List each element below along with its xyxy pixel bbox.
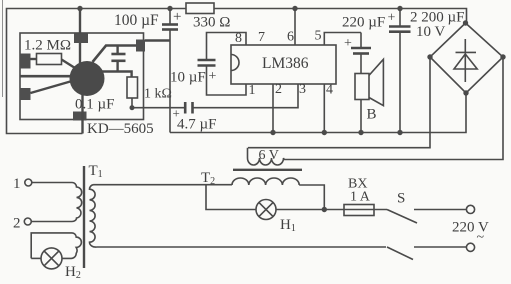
lamp H1 branch: [206, 185, 256, 210]
wire: T1 secondary top to T2 primary: [94, 184, 233, 186]
svg-text:~: ~: [477, 230, 485, 245]
wire: bridge right node to 6V winding right end: [284, 57, 503, 160]
pin 4 wire: [323, 84, 325, 133]
pin 2 wire: [272, 84, 274, 133]
fuse BX 1A: [344, 205, 374, 216]
capacitor 0.1uF: [116, 46, 118, 54]
signal line 1k to 4.7uF to pin 3: [132, 107, 185, 109]
chip blob: [70, 61, 105, 96]
pad left B: [20, 88, 31, 100]
pad bottom E: [73, 112, 87, 121]
switch S pole 1: [387, 210, 417, 224]
svg-text:LM386: LM386: [262, 55, 309, 72]
svg-text:H2: H2: [65, 264, 81, 281]
svg-text:+: +: [173, 9, 181, 25]
lamp H1: [256, 200, 276, 220]
wire: bridge left node to 6V winding: [248, 57, 430, 148]
pad right D: [136, 40, 145, 52]
pad left A: [20, 54, 31, 69]
wire to fuse: [276, 209, 387, 211]
op-amp U1 LM386: [231, 45, 336, 84]
wire: left edge to blob: [20, 75, 80, 78]
svg-text:1: 1: [249, 83, 256, 98]
svg-text:+: +: [388, 11, 396, 26]
ground rail: [170, 93, 466, 133]
pin 6 wire: [294, 9, 296, 46]
wire: T2 primary right to fuse line: [299, 185, 324, 210]
svg-text:8: 8: [235, 31, 242, 46]
svg-text:7: 7: [258, 30, 265, 45]
scan artifact edge line: [2, 0, 4, 97]
svg-text:1.2 MΩ: 1.2 MΩ: [24, 38, 71, 54]
svg-text:5: 5: [315, 29, 322, 44]
wire: blob to pad D: [93, 46, 137, 63]
module KD-5605 box: [20, 33, 144, 120]
bridge rectifier diamond: [430, 23, 503, 93]
transformer T2 secondary 6V winding: [248, 148, 285, 165]
capacitor 4.7uF: [184, 102, 187, 114]
wire: blob to 1k top: [95, 72, 132, 78]
svg-text:1: 1: [13, 176, 21, 192]
svg-text:4: 4: [326, 83, 333, 98]
svg-text:+: +: [209, 69, 217, 84]
switch S pole 2 + wire from T1 secondary bottom: [97, 246, 387, 248]
svg-text:100 µF: 100 µF: [114, 12, 159, 29]
resistor 1.2 Mohm: [31, 58, 37, 60]
svg-text:220 µF: 220 µF: [342, 15, 385, 31]
terminal 1: [25, 179, 32, 186]
svg-text:KD—5605: KD—5605: [87, 121, 154, 137]
svg-text:2: 2: [13, 216, 21, 232]
resistor 1 kohm: [127, 77, 138, 98]
svg-text:10 V: 10 V: [416, 24, 445, 40]
T1 primary upper winding: [31, 183, 81, 222]
svg-text:330 Ω: 330 Ω: [193, 15, 230, 31]
svg-text:S: S: [397, 191, 405, 207]
wire: top supply rail + outer left loop: [7, 9, 187, 134]
T2 core: [233, 169, 302, 171]
wire: blob bottom to outer loop (pad E): [81, 94, 83, 134]
svg-text:T1: T1: [89, 163, 103, 180]
capacitor 2200uF: [399, 9, 401, 27]
transformer T2 primary winding: [232, 178, 299, 185]
svg-text:H1: H1: [280, 217, 296, 234]
wire: top rail right of 330 ohm to bridge top: [214, 9, 467, 24]
node: module top pad wire to rail: [79, 9, 81, 65]
speaker B: [355, 74, 369, 100]
resistor 330 ohm: [186, 3, 214, 14]
diode inside bridge: [464, 39, 466, 82]
lamp H2: [41, 248, 62, 269]
wire: pad D to 100uF lead: [145, 39, 170, 41]
svg-text:6: 6: [287, 30, 294, 45]
svg-text:B: B: [367, 107, 377, 123]
pin 8 wire + 10uF loop: [207, 33, 247, 61]
T1 secondary winding: [89, 185, 96, 247]
svg-text:0.1 µF: 0.1 µF: [75, 97, 115, 113]
capacitor 220uF: [360, 33, 362, 49]
svg-text:1 kΩ: 1 kΩ: [144, 87, 172, 102]
pin 5 wire: [324, 33, 361, 46]
svg-text:2: 2: [275, 82, 282, 97]
svg-text:+: +: [344, 36, 352, 51]
terminal 2: [24, 218, 31, 225]
svg-text:1 A: 1 A: [350, 190, 371, 205]
capacitor 10uF: [198, 59, 216, 62]
capacitor 100uF: [169, 9, 171, 25]
svg-text:10 µF: 10 µF: [170, 70, 206, 86]
lamp H2 loop with T1 lower winding: [31, 233, 81, 259]
svg-text:4.7 µF: 4.7 µF: [177, 117, 217, 133]
transformer T1 core: [83, 166, 85, 268]
svg-text:6 V: 6 V: [259, 148, 279, 163]
pad top C: [74, 34, 88, 44]
wire: pad B bond wire: [31, 81, 73, 93]
svg-text:3: 3: [299, 82, 306, 97]
